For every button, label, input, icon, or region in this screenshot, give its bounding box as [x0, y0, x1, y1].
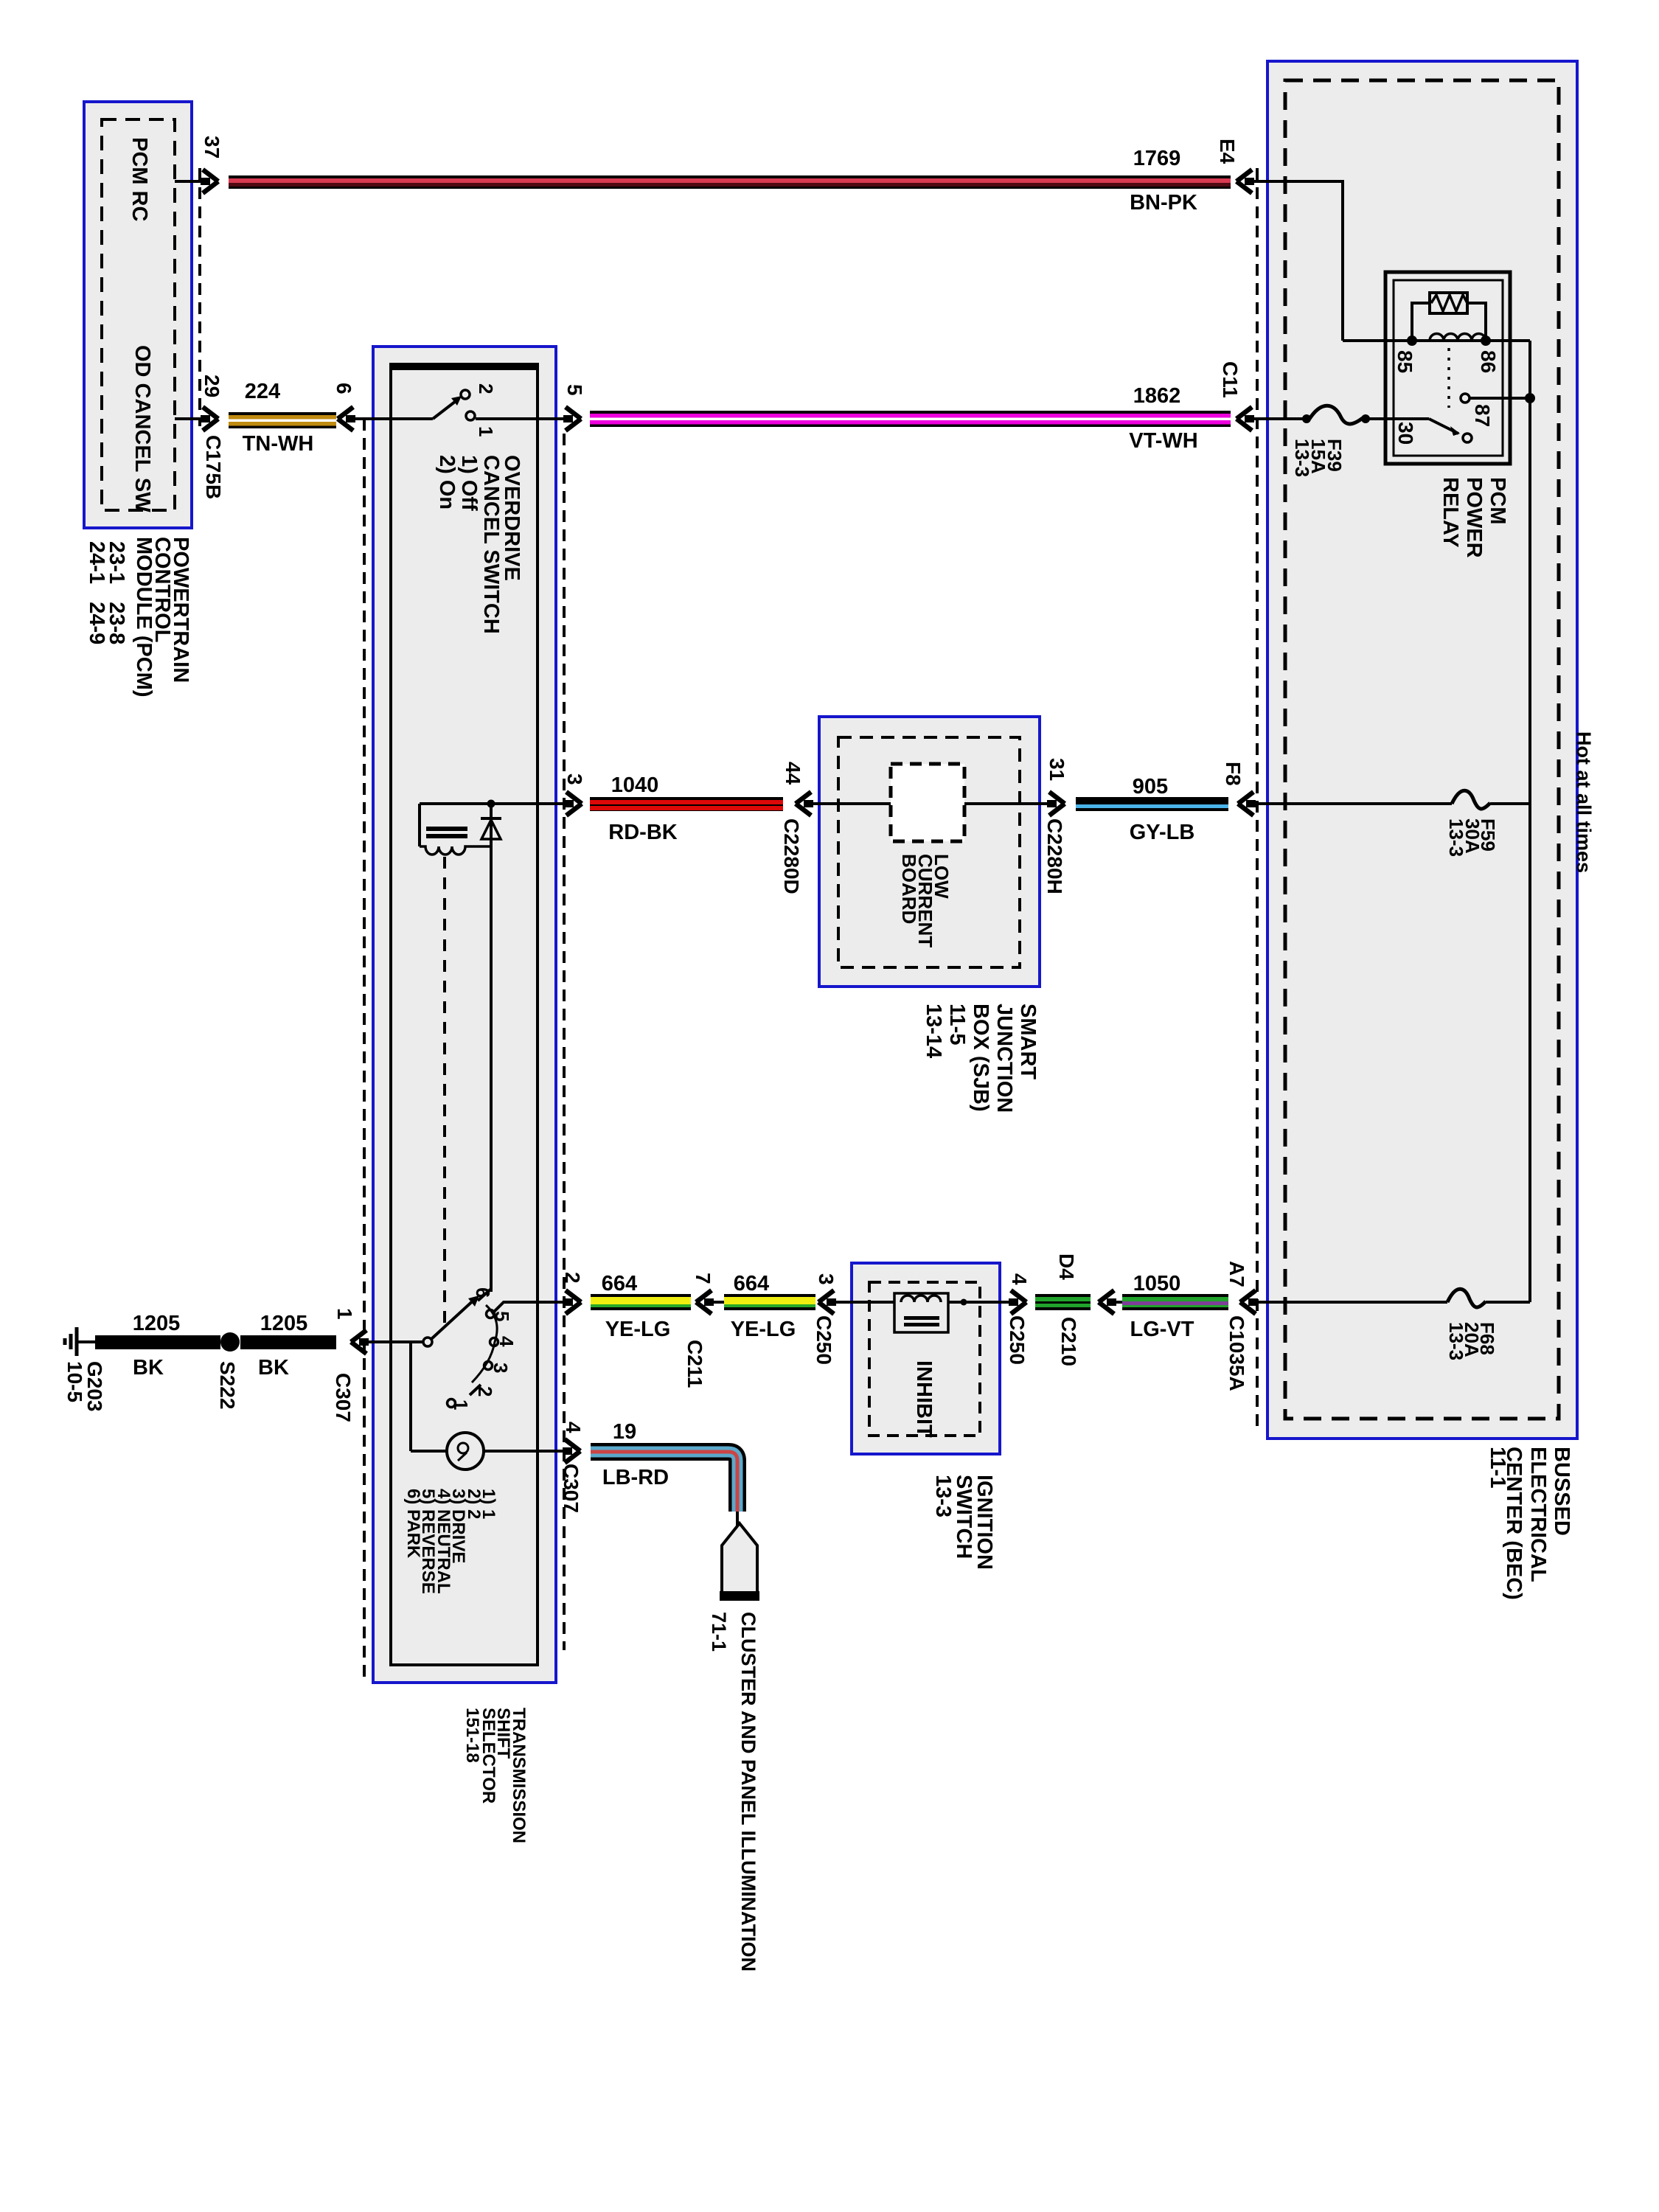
- svg-text:BK: BK: [133, 1356, 164, 1380]
- wire 1205 BK a: [95, 1335, 220, 1349]
- svg-text:2: 2: [561, 1272, 584, 1284]
- splice S222: [220, 1332, 240, 1352]
- svg-text:13-14: 13-14: [922, 1004, 945, 1058]
- svg-text:BUSSED: BUSSED: [1550, 1447, 1573, 1536]
- fuse F59 30A: [1452, 790, 1490, 809]
- pin 6 arrow: [338, 407, 353, 431]
- connector C250 arrow 4: [1011, 1290, 1026, 1314]
- low current board box: [891, 764, 964, 841]
- relay coil resistor box: [1430, 293, 1467, 313]
- C11 lead inside BEC: [1252, 417, 1307, 420]
- svg-text:BN-PK: BN-PK: [1130, 191, 1197, 215]
- svg-text:10-5: 10-5: [63, 1361, 86, 1402]
- connector F8 arrow: [1238, 792, 1253, 815]
- selector pivot: [423, 1338, 432, 1346]
- inhibit inner dashed outline: [869, 1282, 980, 1436]
- node 87 junction: [1525, 393, 1535, 403]
- PCM power relay box: [1385, 272, 1510, 464]
- svg-text:44: 44: [782, 762, 804, 785]
- svg-text:C250: C250: [813, 1315, 835, 1365]
- svg-text:PCM RC: PCM RC: [128, 137, 151, 221]
- svg-text:C1035A: C1035A: [1225, 1315, 1248, 1391]
- contact 3: [484, 1362, 493, 1370]
- fuse F68 20A: [1447, 1289, 1486, 1307]
- svg-text:F8: F8: [1222, 762, 1245, 786]
- svg-text:PCM: PCM: [1486, 477, 1509, 524]
- svg-text:1205: 1205: [133, 1312, 181, 1335]
- svg-text:TN-WH: TN-WH: [243, 432, 314, 456]
- lamp feed: [409, 1340, 412, 1451]
- relay coil stubs: [1412, 303, 1486, 339]
- pin 3 arrow: [566, 792, 582, 815]
- svg-text:6) PARK: 6) PARK: [403, 1489, 423, 1559]
- svg-text:4: 4: [495, 1336, 518, 1347]
- svg-text:4: 4: [562, 1422, 585, 1433]
- connector 44 arrow: [796, 792, 811, 815]
- svg-text:RELAY: RELAY: [1439, 477, 1462, 548]
- contact 5 to pin 2 lead: [494, 1302, 568, 1312]
- inhibit winding: [901, 1295, 941, 1302]
- illumination lamp: [447, 1433, 484, 1470]
- relay actuation dotted link: [1447, 348, 1450, 408]
- svg-text:3: 3: [563, 773, 586, 785]
- svg-text:3: 3: [490, 1363, 512, 1373]
- selector arm: [431, 1298, 476, 1339]
- wire C210: [1035, 1294, 1091, 1310]
- connector 31 arrow: [1049, 792, 1065, 815]
- svg-text:31: 31: [1046, 758, 1068, 781]
- svg-text:2: 2: [475, 383, 497, 394]
- svg-text:C2280D: C2280D: [780, 818, 803, 894]
- svg-text:INHIBIT: INHIBIT: [912, 1360, 936, 1438]
- svg-text:C211: C211: [684, 1340, 706, 1388]
- svg-text:A7: A7: [1225, 1261, 1248, 1287]
- svg-text:LG-VT: LG-VT: [1130, 1318, 1194, 1341]
- svg-text:Hot at all times: Hot at all times: [1573, 731, 1595, 873]
- selector gate arc: [472, 1305, 497, 1382]
- ground G203: [75, 1327, 79, 1356]
- svg-text:1205: 1205: [260, 1312, 308, 1335]
- wire 1040 RD-BK: [590, 797, 783, 811]
- svg-text:13-3: 13-3: [1445, 1322, 1467, 1360]
- relay pin 85 junction: [1407, 335, 1417, 346]
- relay armature: [1429, 419, 1458, 434]
- svg-text:GY-LB: GY-LB: [1130, 821, 1195, 844]
- PCM inner dashed outline: [102, 119, 175, 510]
- svg-text:C2280H: C2280H: [1043, 818, 1066, 894]
- relay coil feed wire: [1343, 339, 1530, 342]
- lead into SJB: [811, 802, 891, 805]
- pin 37 lead: [175, 180, 204, 183]
- connector dashed line C175B: [198, 168, 201, 426]
- svg-text:1040: 1040: [611, 773, 659, 797]
- diode CR: [481, 817, 501, 820]
- contact 4: [490, 1338, 498, 1346]
- svg-text:71-1: 71-1: [708, 1612, 730, 1652]
- lead A7 to fuse F68: [1256, 1301, 1447, 1304]
- pin 5 arrow: [566, 407, 581, 431]
- inhibit core bars: [904, 1316, 939, 1320]
- lamp output lead: [484, 1450, 568, 1453]
- node solenoid junction: [487, 800, 495, 808]
- OD solenoid top lead: [420, 802, 568, 805]
- solenoid core bars: [426, 827, 467, 831]
- connector E4 arrow: [1237, 170, 1252, 193]
- pin 37 arrow: [203, 170, 218, 193]
- svg-text:11-5: 11-5: [945, 1004, 969, 1045]
- svg-text:POWER: POWER: [1462, 477, 1486, 558]
- wire E4 to BEC: [1252, 180, 1343, 183]
- svg-text:24-1 24-9: 24-1 24-9: [85, 541, 108, 644]
- connector C11 arrow: [1237, 407, 1252, 431]
- BEC connector dashed line: [1256, 168, 1259, 1427]
- svg-text:1: 1: [475, 426, 497, 437]
- connector C250 arrow 3: [818, 1290, 834, 1314]
- svg-text:CLUSTER AND PANEL ILLUMINATION: CLUSTER AND PANEL ILLUMINATION: [737, 1612, 759, 1972]
- contact 6: [478, 1289, 491, 1301]
- svg-text:RD-BK: RD-BK: [608, 821, 677, 844]
- svg-text:30: 30: [1394, 422, 1417, 445]
- svg-text:2: 2: [474, 1386, 496, 1397]
- svg-text:E4: E4: [1216, 139, 1239, 164]
- svg-text:2) On: 2) On: [435, 455, 459, 509]
- switch housing rect: [391, 364, 538, 1665]
- wire solenoid to contact 6: [490, 846, 493, 1292]
- svg-text:29: 29: [201, 375, 223, 397]
- svg-text:5: 5: [491, 1311, 513, 1321]
- svg-text:87: 87: [1471, 404, 1494, 427]
- solenoid mechanical dashed link: [443, 857, 446, 1327]
- svg-text:1: 1: [333, 1308, 356, 1320]
- svg-text:C250: C250: [1006, 1315, 1029, 1365]
- svg-text:LB-RD: LB-RD: [602, 1466, 669, 1489]
- svg-text:13-3: 13-3: [931, 1475, 955, 1517]
- svg-text:MODULE (PCM): MODULE (PCM): [132, 537, 156, 697]
- transmission shift selector box: [373, 347, 556, 1683]
- cluster connector: [722, 1523, 757, 1593]
- PCM module box: [84, 102, 192, 528]
- svg-text:1862: 1862: [1133, 384, 1181, 408]
- svg-text:BOARD: BOARD: [898, 854, 920, 924]
- svg-text:C11: C11: [1219, 361, 1242, 398]
- svg-text:YE-LG: YE-LG: [605, 1318, 671, 1341]
- BEC inner dashed outline: [1285, 80, 1559, 1419]
- svg-text:1: 1: [450, 1399, 472, 1410]
- OD switch output lead: [476, 417, 568, 420]
- wire 905 GY-LB: [1076, 797, 1228, 811]
- svg-text:224: 224: [245, 380, 280, 403]
- svg-text:6: 6: [333, 383, 355, 394]
- svg-text:S222: S222: [216, 1361, 239, 1409]
- lead to cluster connector: [736, 1512, 739, 1526]
- hot bus wire: [1528, 341, 1531, 1302]
- svg-text:1769: 1769: [1133, 147, 1181, 170]
- svg-text:85: 85: [1394, 350, 1416, 373]
- wire 664 YE-LG b: [724, 1294, 815, 1310]
- pin 2 arrow: [566, 1290, 581, 1314]
- lead F8 to fuse F59: [1253, 802, 1452, 805]
- svg-text:13-3: 13-3: [1445, 818, 1467, 857]
- svg-text:OD CANCEL SW: OD CANCEL SW: [131, 345, 154, 512]
- wire 1205 BK b: [240, 1335, 336, 1349]
- wire 19 LB-RD: [591, 1452, 737, 1512]
- svg-text:86: 86: [1477, 350, 1500, 373]
- relay pin 86 junction: [1481, 335, 1491, 346]
- OD cancel switch contact 1: [466, 411, 475, 420]
- wire 1862 VT-WH: [590, 411, 1231, 427]
- svg-text:BOX (SJB): BOX (SJB): [969, 1004, 992, 1112]
- OD cancel switch arm: [433, 399, 459, 419]
- wire 1769 BN-PK: [229, 175, 1231, 189]
- svg-text:1) Off: 1) Off: [457, 455, 481, 511]
- connector C211 arrow 7: [696, 1290, 712, 1314]
- svg-text:664: 664: [734, 1272, 769, 1295]
- inhibit through lead: [948, 1301, 1013, 1304]
- inhibit solenoid box: [894, 1293, 948, 1332]
- svg-text:D4: D4: [1055, 1253, 1078, 1280]
- svg-text:664: 664: [602, 1272, 637, 1295]
- fuse F39 15A: [1302, 414, 1311, 423]
- svg-text:BK: BK: [258, 1356, 289, 1380]
- contact 2: [470, 1385, 481, 1395]
- contact 5: [487, 1310, 495, 1318]
- svg-text:VT-WH: VT-WH: [1129, 429, 1197, 453]
- pin 29 lead: [175, 417, 204, 420]
- svg-text:6: 6: [472, 1287, 494, 1298]
- svg-text:CANCEL SWITCH: CANCEL SWITCH: [479, 455, 503, 634]
- svg-text:ELECTRICAL: ELECTRICAL: [1526, 1447, 1550, 1582]
- svg-text:4: 4: [1008, 1273, 1031, 1285]
- svg-text:13-3: 13-3: [1291, 439, 1313, 477]
- contact 1: [448, 1399, 456, 1408]
- connector dashed line left: [363, 419, 366, 1681]
- solenoid winding: [420, 846, 491, 855]
- relay contact 87: [1461, 394, 1470, 403]
- svg-text:C307: C307: [332, 1373, 355, 1422]
- svg-text:151-18: 151-18: [462, 1708, 482, 1763]
- svg-text:11-1: 11-1: [1486, 1447, 1509, 1488]
- svg-text:JUNCTION: JUNCTION: [992, 1004, 1016, 1113]
- svg-text:905: 905: [1133, 775, 1168, 799]
- smart junction box: [819, 717, 1040, 987]
- svg-text:3: 3: [815, 1273, 838, 1285]
- wire 224 TN-WH: [229, 412, 336, 428]
- connector dashed line right: [563, 434, 566, 1650]
- svg-text:7: 7: [692, 1273, 714, 1284]
- svg-text:YE-LG: YE-LG: [731, 1318, 796, 1341]
- relay pin 30 lead: [1366, 417, 1429, 420]
- bussed electrical center box: [1267, 61, 1577, 1439]
- svg-text:C307: C307: [560, 1464, 582, 1513]
- lead out of SJB: [964, 802, 1051, 805]
- connector A7 arrow: [1240, 1290, 1256, 1314]
- ignition switch inhibit box: [852, 1263, 1000, 1454]
- connector C307 arrow 4: [565, 1439, 580, 1463]
- wire 664 YE-LG a: [591, 1294, 691, 1310]
- SJB inner dashed outline: [838, 737, 1020, 967]
- svg-text:C210: C210: [1057, 1317, 1080, 1366]
- svg-text:5: 5: [563, 384, 586, 396]
- svg-text:C175B: C175B: [202, 435, 225, 499]
- connector C210 arrow: [1099, 1290, 1114, 1314]
- relay coil winding arcs: [1430, 334, 1486, 341]
- OD cancel switch contact 2: [461, 390, 470, 399]
- lead into selector: [366, 1340, 423, 1343]
- svg-text:1050: 1050: [1133, 1272, 1181, 1295]
- svg-text:37: 37: [201, 136, 223, 159]
- connector C307 arrow 1: [351, 1330, 366, 1354]
- svg-text:19: 19: [613, 1420, 636, 1444]
- svg-text:SMART: SMART: [1016, 1004, 1040, 1079]
- wire 1050 LG-VT: [1122, 1294, 1228, 1310]
